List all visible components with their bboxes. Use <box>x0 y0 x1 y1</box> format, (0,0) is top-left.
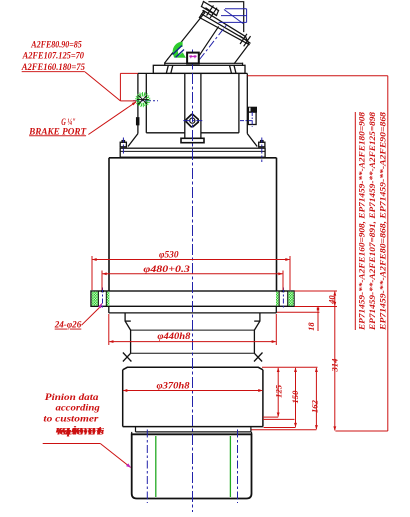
svg-text:125: 125 <box>274 384 284 398</box>
svg-text:18: 18 <box>306 322 316 331</box>
svg-text:150: 150 <box>290 390 300 404</box>
svg-text:BRAKE PORT: BRAKE PORT <box>28 127 86 137</box>
svg-text:φ480+0.3: φ480+0.3 <box>143 264 190 274</box>
svg-text:Pinion data: Pinion data <box>45 393 99 403</box>
svg-text:φ440h8: φ440h8 <box>157 331 190 341</box>
svg-text:A2FE107.125=70: A2FE107.125=70 <box>22 52 85 62</box>
svg-text:to customer: to customer <box>43 414 98 424</box>
svg-text:40: 40 <box>327 295 337 305</box>
svg-text:G ¼": G ¼" <box>61 117 75 127</box>
svg-text:according: according <box>56 404 101 414</box>
svg-text:A2FE80.90=85: A2FE80.90=85 <box>30 40 82 50</box>
svg-text:EP71459-**-A2FE160=908, EP7145: EP71459-**-A2FE160=908, EP71459-**-A2FE1… <box>356 111 366 331</box>
svg-text:EP71459-**-A2FE107=891, EP7145: EP71459-**-A2FE107=891, EP71459-**-A2FE1… <box>367 111 377 331</box>
svg-text:EP71459-**-A2FE80=868, EP71459: EP71459-**-A2FE80=868, EP71459-**-A2FE90… <box>377 111 387 331</box>
svg-text:φ530: φ530 <box>159 249 179 259</box>
svg-text:162: 162 <box>310 399 320 413</box>
svg-text:A2FE160.180=75: A2FE160.180=75 <box>21 63 85 73</box>
svg-text:314: 314 <box>329 358 339 373</box>
svg-text:24-φ26: 24-φ26 <box>54 321 82 331</box>
svg-text:φ370h8: φ370h8 <box>157 381 190 391</box>
svg-text:requirements: requirements <box>57 427 105 437</box>
